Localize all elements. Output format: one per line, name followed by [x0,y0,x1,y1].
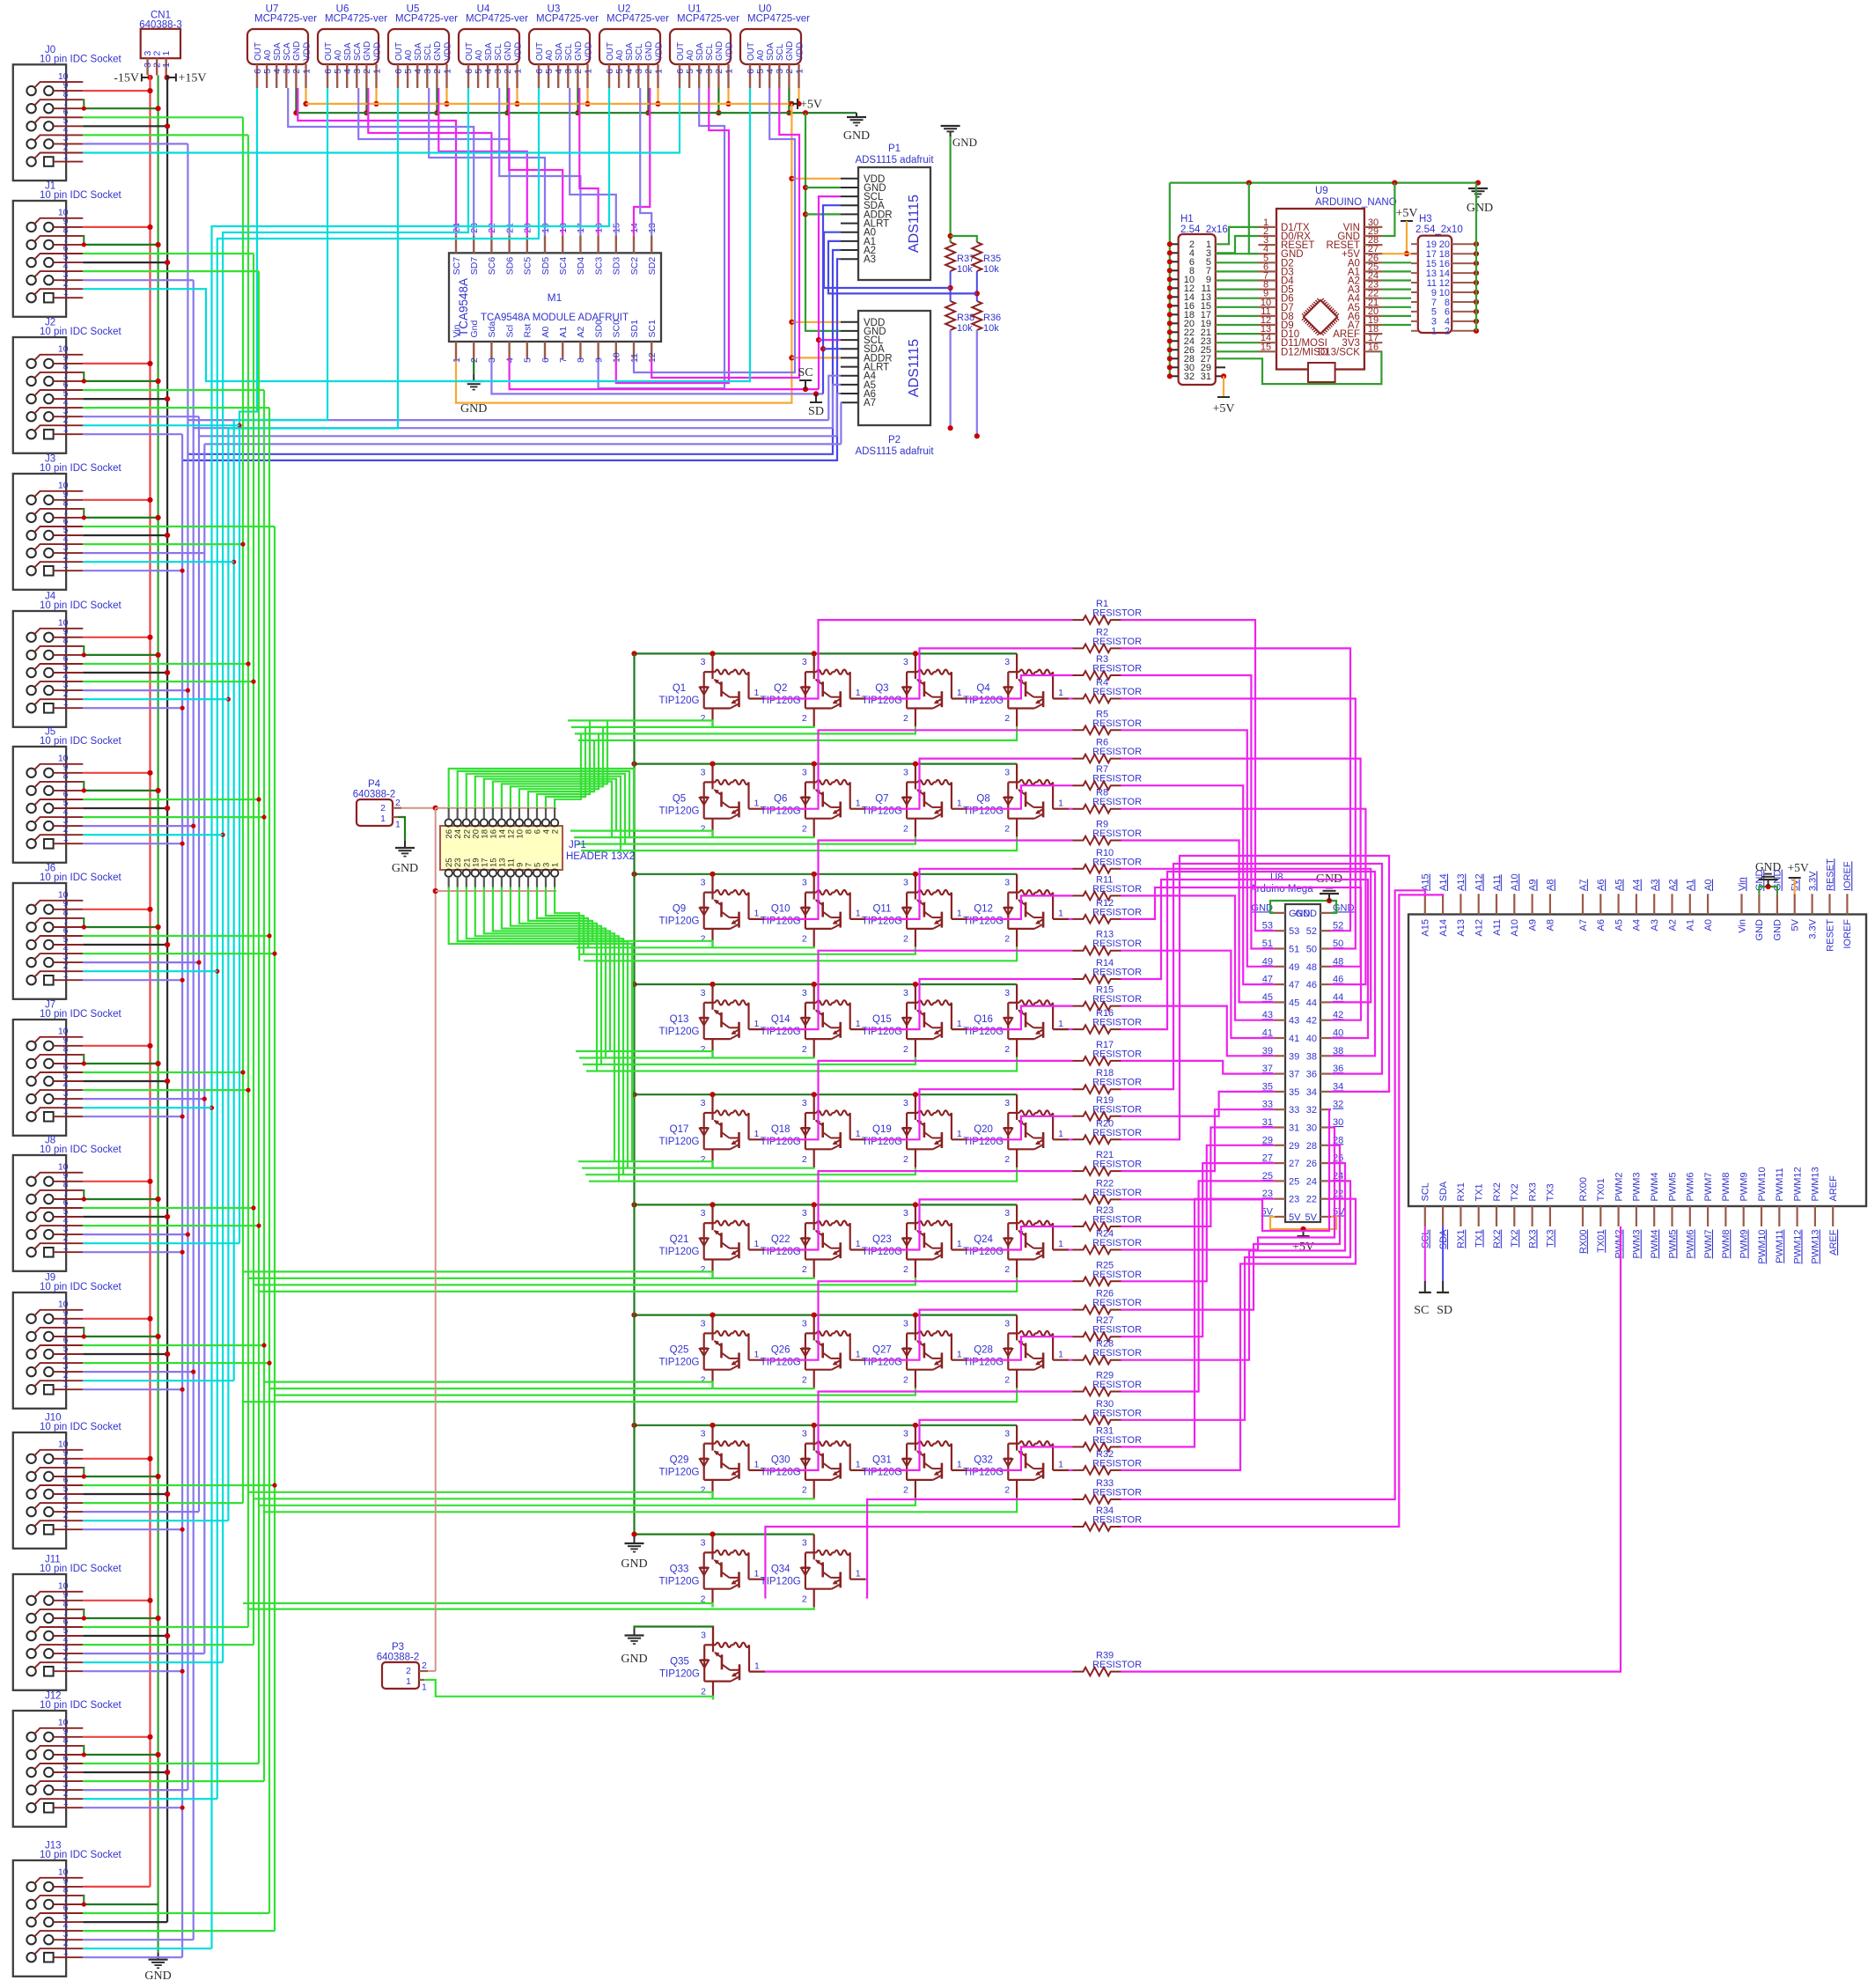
svg-text:AREF: AREF [1828,1229,1839,1255]
wire J10 pin1 violet [83,1528,182,1530]
svg-text:45: 45 [1262,992,1273,1003]
svg-text:35: 35 [1289,1087,1299,1098]
wire J1 pin7 to GND rail [83,244,158,246]
resistor R36 10k [972,301,1001,334]
svg-text:3: 3 [903,878,908,888]
svg-text:A3: A3 [1650,919,1660,931]
svg-text:Q21: Q21 [670,1234,689,1245]
svg-text:6: 6 [540,357,551,363]
svg-text:1: 1 [957,798,962,808]
svg-text:H1: H1 [1180,214,1194,225]
svg-text:1: 1 [1058,688,1063,698]
wire GND bus row 4 [635,983,1018,985]
svg-text:10: 10 [58,754,69,764]
svg-text:RESISTOR: RESISTOR [1092,747,1142,757]
wire U0 VDD to +5V bus [798,88,799,104]
svg-text:10: 10 [58,1867,69,1878]
wire module I2C to M1 pin 24 [298,88,456,235]
svg-text:2: 2 [701,1264,706,1275]
svg-text:RESISTOR: RESISTOR [1092,1018,1142,1028]
wire GND rail vertical [158,76,159,1953]
svg-text:Q12: Q12 [974,904,993,915]
svg-text:RESISTOR: RESISTOR [1092,1515,1142,1526]
wire J11 pin1 violet [83,1670,182,1672]
svg-text:2: 2 [701,1686,706,1697]
svg-text:RESISTOR: RESISTOR [1092,1160,1142,1170]
module U0 MCP4725-ver [740,4,810,89]
svg-text:RESISTOR: RESISTOR [1092,1270,1142,1280]
wire JP1 bottom pin 21 [467,887,623,1174]
wire row7 base line 3 [275,1388,915,1395]
wire H1 to U9 row 11 [1216,324,1259,326]
wire R15 to U8 pin 39 [1121,1006,1276,1057]
svg-text:1: 1 [856,1568,861,1579]
svg-text:Q35: Q35 [670,1656,689,1667]
transistor Q15 TIP120G [862,984,967,1057]
svg-text:3.3V: 3.3V [1807,871,1818,891]
wire J0 pin7 to GND rail [83,107,158,109]
wire J3 pin1 violet [83,570,182,571]
svg-text:10: 10 [58,1300,69,1310]
svg-text:Q17: Q17 [670,1124,689,1135]
svg-text:37: 37 [1262,1064,1273,1074]
svg-text:+5V: +5V [1292,1241,1314,1254]
wire J1 pin2 cyan to U0 OUT [83,88,750,381]
module U3 MCP4725-ver [529,4,599,89]
wire Q21 pin1 to R21 [765,1171,1073,1249]
wire J7 pin3 violet [83,1098,204,1100]
svg-text:1: 1 [1058,1019,1063,1029]
svg-text:10k: 10k [983,264,999,275]
svg-text:2: 2 [903,1154,908,1165]
svg-text:Q27: Q27 [872,1344,892,1355]
wire Q13 pin1 to R13 [765,951,1073,1029]
module P1 ADS1115 adafruit [841,144,934,280]
wire R28 to U8 pin 26 [1121,1163,1346,1360]
svg-text:SD6: SD6 [504,257,515,276]
svg-text:1: 1 [754,1239,760,1249]
resistor R16 RESISTOR [1073,1008,1143,1034]
svg-text:SC5: SC5 [523,257,533,276]
wire U9 A5 to H3 [1382,306,1411,308]
svg-text:TIP120G: TIP120G [761,1247,801,1257]
wire R1 to U8 pin 53 [1121,620,1276,931]
svg-text:A7: A7 [1578,880,1589,891]
wire JP1 top pin 18 [484,779,616,831]
svg-text:A0: A0 [756,49,766,61]
wire JP1 top pin 6 [537,720,590,808]
wire J1 pin4 green [83,270,259,272]
svg-text:PWM11: PWM11 [1775,1167,1785,1201]
svg-text:3: 3 [802,988,807,998]
svg-text:SDA: SDA [484,42,494,61]
wire J3 pin6 green [83,526,275,527]
wire M1 Gnd to ground [473,359,474,374]
svg-text:U8: U8 [1270,873,1283,883]
wire A0 to divider [824,232,951,288]
svg-text:TIP120G: TIP120G [658,1357,699,1367]
svg-text:Vin: Vin [452,324,462,337]
wire H1 to U9 row 5 [1216,270,1259,272]
svg-text:PWM10: PWM10 [1757,1167,1768,1201]
svg-text:TIP120G: TIP120G [761,696,801,706]
svg-text:A14: A14 [1438,919,1449,937]
svg-text:A2: A2 [1667,880,1678,891]
svg-text:+5V: +5V [800,99,822,112]
svg-text:3: 3 [701,1429,706,1439]
wire GND bus row 7 [635,1314,1018,1315]
resistor R23 RESISTOR [1073,1205,1143,1231]
module P2 ADS1115 adafruit [841,311,934,457]
svg-text:51: 51 [1262,939,1273,949]
svg-text:Q16: Q16 [974,1014,993,1025]
wire J0 pin9 to -15V rail [83,90,150,92]
wire row6 base line 1 [243,1271,713,1277]
svg-text:3: 3 [802,878,807,888]
svg-text:10k: 10k [957,323,973,334]
wire U2 VDD to +5V bus [657,88,658,104]
svg-text:2: 2 [903,823,908,834]
svg-text:A6: A6 [1596,880,1607,891]
svg-text:A7: A7 [1578,919,1589,931]
wire U9 A7 to H3 [1382,324,1411,326]
svg-text:PWM3: PWM3 [1632,1173,1643,1202]
svg-text:GND: GND [1755,860,1781,873]
wire R7 to U8 pin 47 [1121,785,1276,984]
wire J13 pin8 jog [83,1896,84,1904]
wire JP1 top pin 8 [528,740,594,808]
transistor Q2 TIP120G [761,653,866,726]
svg-text:TIP120G: TIP120G [659,1668,700,1679]
svg-text:AREF: AREF [1828,1175,1839,1202]
wire H1 to U9 row 7 [1216,289,1259,291]
wire R14 to U8 pin 40 [1121,880,1369,1038]
wire R24 to U8 pin 30 [1121,1128,1335,1250]
svg-text:TIP120G: TIP120G [862,1137,902,1147]
svg-text:A15: A15 [1421,919,1431,937]
svg-text:2: 2 [1004,713,1010,724]
svg-text:RESISTOR: RESISTOR [1092,1188,1142,1198]
svg-text:RX3: RX3 [1527,1182,1538,1201]
svg-text:VDD: VDD [724,42,734,61]
svg-text:5: 5 [523,357,533,363]
wire module I2C to M1 pin 15 [570,88,616,235]
wire JP1 top pin 22 [467,774,625,844]
svg-text:2: 2 [1004,1264,1010,1275]
wire R21 to U8 pin 33 [1121,1109,1276,1171]
svg-text:TX2: TX2 [1510,1183,1520,1201]
wire J5 pin4 green [83,816,264,818]
wire U9 A2 to H3 [1382,279,1411,281]
resistor R12 RESISTOR [1073,898,1143,924]
svg-text:R37: R37 [957,254,974,264]
svg-text:1: 1 [724,69,734,74]
wire R11 to U8 pin 43 [1121,895,1276,1020]
transistor Q25 TIP120G [658,1315,764,1388]
svg-text:RESET: RESET [1825,919,1835,952]
wire module I2C to M1 pin 22 [368,88,491,235]
svg-text:RESISTOR: RESISTOR [1092,718,1142,729]
wire GND Q35 [635,1627,714,1646]
svg-text:2: 2 [701,823,706,834]
net tie SD [808,391,824,418]
svg-text:10 pin IDC Socket: 10 pin IDC Socket [40,54,121,64]
wire row5 base line 3 [585,1167,915,1174]
svg-text:3: 3 [802,1208,807,1219]
wire Q17 pin1 to R17 [765,1061,1073,1139]
svg-text:2: 2 [701,713,706,724]
svg-text:2: 2 [802,823,807,834]
wire J11 pin4 green [83,1644,254,1646]
svg-text:RESISTOR: RESISTOR [1092,884,1142,895]
wire J12 pin4 green [83,1780,264,1782]
svg-text:10: 10 [58,208,69,218]
wire R18 to U8 pin 36 [1121,864,1383,1089]
svg-text:31: 31 [1262,1117,1273,1128]
svg-text:PWM4: PWM4 [1650,1173,1660,1202]
svg-text:VDD: VDD [513,42,523,61]
wire Q12 pin1 to R12 [1069,918,1072,920]
wire J8 pin9 to -15V rail [83,1181,150,1182]
svg-text:2: 2 [1004,823,1010,834]
wire J9 pin1 violet [83,1388,182,1390]
svg-text:34: 34 [1333,1081,1343,1092]
svg-text:TIP120G: TIP120G [761,1576,801,1587]
svg-text:Q2: Q2 [774,683,787,694]
svg-text:50: 50 [1306,945,1317,955]
transistor Q16 TIP120G [963,984,1069,1057]
svg-text:GND: GND [785,41,795,61]
wire J8 pin5 to +15V rail [83,1216,167,1218]
wire R6 to U8 pin 48 [1121,759,1361,967]
svg-text:HEADER 13X2: HEADER 13X2 [566,851,635,862]
resistor R14 RESISTOR [1073,958,1143,983]
svg-text:Q30: Q30 [771,1455,790,1466]
wire U9 GND29 to rail [1382,183,1394,236]
wire A3 long [182,259,841,460]
wire Q14 pin1 to R14 [866,979,1073,1029]
wire J12 pin5 to +15V rail [83,1771,167,1773]
wire M1 Sda to SD net [491,359,823,394]
svg-text:45: 45 [1289,998,1299,1008]
wire J0 pin4 green [83,134,248,136]
wire J0 pin6 green [83,116,243,118]
svg-text:1: 1 [406,1676,411,1687]
svg-text:PWM5: PWM5 [1667,1173,1678,1202]
wire R2 to U8 pin 52 [1121,648,1351,931]
module U4 MCP4725-ver [459,4,528,89]
wire violet trunk 2 [198,416,200,1512]
wire row7 base line 4 [243,1388,1017,1403]
svg-text:RX1: RX1 [1456,1230,1467,1248]
svg-text:Sda: Sda [487,321,497,338]
svg-text:TIP120G: TIP120G [963,1137,1004,1147]
wire green trunk 2 [253,254,254,1645]
net tie SD U8 [1437,1226,1452,1317]
svg-text:A3: A3 [1650,880,1660,891]
connector JP1 HEADER 13X2 [440,808,635,887]
svg-text:1: 1 [957,1019,962,1029]
svg-text:A2: A2 [1667,919,1678,931]
transistor Q12 TIP120G [963,874,1069,947]
svg-text:Q24: Q24 [974,1234,993,1245]
wire GND bus dark green [296,112,857,114]
svg-text:RESISTOR: RESISTOR [1092,608,1142,619]
wire row4 base line 1 [576,1051,713,1057]
transistor Q7 TIP120G [862,764,967,837]
svg-text:SD1: SD1 [629,320,640,338]
wire J11 pin3 violet [83,1653,204,1654]
wire row8 base line 4 [264,1498,1017,1513]
ground GND under M1 [460,374,487,416]
svg-text:Q28: Q28 [974,1344,993,1355]
svg-text:RESISTOR: RESISTOR [1092,1435,1142,1446]
resistor R4 RESISTOR [1073,678,1143,703]
wire J4 pin1 violet [83,707,182,709]
svg-text:8: 8 [576,357,586,363]
svg-text:1: 1 [957,688,962,698]
svg-text:3: 3 [701,1630,706,1640]
transistor Q24 TIP120G [963,1204,1069,1277]
wire J4 pin3 violet [83,689,187,691]
wire J13 pin7 to GND rail [83,1903,158,1905]
svg-text:Q25: Q25 [670,1344,689,1355]
wire J12 pin7 to GND rail [83,1754,158,1756]
wire J2 pin8 jog [83,372,84,381]
wire green trunk 3 [258,271,260,1763]
wire JP1 bottom pin 15 [493,887,610,1051]
wire J1 pin3 violet [83,279,193,281]
wire J5 pin7 to GND rail [83,790,158,792]
transistor Q20 TIP120G [963,1094,1069,1167]
wire green trunk 1 [247,135,249,1627]
svg-text:SC: SC [798,366,812,379]
svg-text:1: 1 [856,1129,861,1139]
svg-text:SCL: SCL [635,43,644,61]
svg-text:RESET: RESET [1825,858,1835,891]
wire J6 pin1 violet [83,979,182,981]
svg-text:RX3: RX3 [1527,1230,1538,1248]
wire U3 OUT cyan trunk [217,88,539,1799]
wire J7 pin6 green [83,1071,243,1073]
svg-text:46: 46 [1333,975,1343,985]
wire P4 pin2 net [401,807,436,809]
wire R3 to U8 pin 51 [1121,675,1276,949]
wire green trunk 0 [242,117,244,1503]
svg-text:3: 3 [903,1429,908,1439]
wire J3 pin5 to +15V rail [83,534,167,536]
svg-text:VDD: VDD [302,42,312,61]
wire row8 base line 1 [248,1492,713,1498]
wire P4-P3 vertical [435,808,437,1671]
svg-text:SD5: SD5 [540,257,551,276]
svg-text:SDA: SDA [273,42,283,61]
ground GND Q35 [621,1629,647,1667]
wire J7 pin1 violet [83,1115,182,1117]
wire U3 VDD to +5V bus [586,88,588,104]
svg-text:GND: GND [144,1970,171,1983]
svg-text:25: 25 [1262,1171,1273,1182]
wire J3 pin7 to GND rail [83,517,158,519]
svg-text:1: 1 [957,1239,962,1249]
power +5V top right U8 [1788,861,1809,894]
wire Q1 pin1 to R1 [765,620,1073,698]
svg-text:PWM6: PWM6 [1686,1173,1696,1202]
wire JP1 bottom pin 19 [475,887,619,1182]
svg-text:2: 2 [1445,327,1450,337]
svg-text:29: 29 [1289,1141,1299,1152]
svg-text:3: 3 [802,657,807,667]
svg-text:SDA: SDA [343,42,353,61]
svg-text:1: 1 [380,814,386,824]
wire Q23 pin1 to R23 [967,1226,1073,1250]
svg-text:27: 27 [1262,1153,1273,1164]
wire J9 pin9 to -15V rail [83,1318,150,1320]
svg-text:40: 40 [1333,1028,1343,1039]
wire Q4 pin1 to R4 [1069,697,1072,699]
wire J10 pin8 jog [83,1468,84,1476]
transistor Q1 TIP120G [658,653,764,726]
svg-text:10: 10 [58,1162,69,1173]
wire row5 base line 2 [582,1167,814,1169]
svg-text:RESISTOR: RESISTOR [1092,857,1142,867]
wire J4 pin7 to GND rail [83,654,158,656]
svg-text:10 pin IDC Socket: 10 pin IDC Socket [40,327,121,337]
svg-text:GND: GND [952,136,977,149]
wire M1 SD1 to U0 SDA [634,88,795,372]
resistor R24 RESISTOR [1073,1229,1143,1255]
wire J7 pin7 to GND rail [83,1063,158,1064]
svg-text:31: 31 [1201,372,1211,382]
svg-text:1: 1 [653,69,664,74]
svg-text:P3: P3 [392,1642,404,1653]
wire J9 pin3 violet [83,1371,193,1373]
svg-text:TX2: TX2 [1510,1230,1520,1248]
svg-text:Scl: Scl [504,325,515,338]
svg-text:2: 2 [903,1485,908,1496]
wire J2 pin3 violet [83,416,199,417]
resistor R17 RESISTOR [1073,1040,1143,1065]
wire row4 base line 4 [586,1057,1017,1071]
svg-text:SD: SD [808,405,824,418]
ground GND top middle [843,113,870,143]
svg-text:GND: GND [363,41,372,61]
svg-text:1: 1 [754,1349,760,1359]
wire J1 pin6 green [83,253,254,254]
wire +5V bus orange [306,103,792,105]
svg-text:A0: A0 [404,49,414,61]
wire Q9 pin1 to R9 [765,841,1073,919]
svg-text:1: 1 [161,63,172,68]
wire module I2C to M1 pin 19 [429,88,545,235]
svg-text:42: 42 [1306,1016,1317,1027]
svg-text:2: 2 [903,1264,908,1275]
wire module I2C to M1 pin 20 [438,88,527,235]
wire J5 pin6 green [83,799,259,800]
wire row6 base line 4 [259,1277,1017,1292]
svg-text:PWM8: PWM8 [1721,1173,1732,1202]
wire J13 pin9 to -15V rail [83,1886,150,1888]
wire row6 base line 3 [254,1277,915,1285]
svg-text:VDD: VDD [372,42,382,61]
svg-text:TIP120G: TIP120G [862,1468,902,1478]
wire row5 base line 1 [578,1161,713,1167]
wire R34 to A14 [1121,894,1444,1527]
wire Q7 pin1 to R7 [967,785,1073,809]
svg-text:RESISTOR: RESISTOR [1092,1408,1142,1418]
svg-text:1: 1 [422,1682,427,1693]
wire J8 pin1 violet [83,1251,182,1253]
